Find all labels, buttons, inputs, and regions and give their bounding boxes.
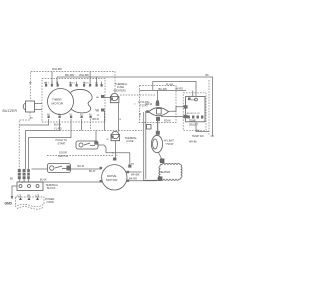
svg-text:2B 2C: 2B 2C [83,82,89,84]
svg-text:GND: GND [5,201,13,205]
svg-text:BK-W: BK-W [89,170,96,173]
svg-text:T'STAT: T'STAT [165,142,174,146]
svg-text:TEMP SW: TEMP SW [192,135,204,138]
svg-text:RD-W: RD-W [146,103,153,106]
svg-text:B-R: B-R [95,109,99,111]
svg-text:BUZZER: BUZZER [3,109,18,113]
svg-text:MOTOR: MOTOR [106,178,118,182]
svg-text:WH-BK: WH-BK [189,141,197,144]
svg-text:DOOR: DOOR [59,151,67,155]
svg-text:THERMAL: THERMAL [125,136,138,140]
svg-text:BK: BK [206,74,210,77]
svg-text:SELECT: SELECT [189,124,199,127]
svg-text:WH-BK: WH-BK [131,173,140,177]
svg-text:SWITCH: SWITCH [58,154,68,158]
svg-text:WH-BK: WH-BK [79,73,89,77]
svg-text:1B 1C: 1B 1C [69,82,75,84]
svg-text:CORD: CORD [47,201,55,204]
svg-text:4C: 4C [89,114,92,116]
svg-text:YL-RD: YL-RD [54,127,62,131]
svg-text:START: START [58,141,67,145]
svg-text:BU-W: BU-W [78,165,85,168]
svg-text:HI-LIMIT: HI-LIMIT [164,138,175,142]
svg-text:6C: 6C [70,114,73,116]
svg-text:BU-W: BU-W [40,179,47,182]
svg-text:MOTOR: MOTOR [52,102,64,106]
svg-text:BLOCK: BLOCK [47,187,56,190]
svg-text:TEMP: TEMP [189,119,196,122]
svg-text:PUSH TO: PUSH TO [56,138,67,142]
svg-text:BK-RD: BK-RD [65,73,75,77]
svg-text:BK-RD: BK-RD [159,87,167,91]
svg-text:FUSE: FUSE [127,139,134,143]
svg-text:BU-W: BU-W [54,123,61,127]
svg-text:6M: 6M [131,164,134,166]
svg-text:5C: 5C [80,114,83,116]
svg-text:BK T: BK T [44,82,49,84]
svg-text:HEATER: HEATER [160,170,171,174]
svg-text:RD BU YL W: RD BU YL W [187,113,201,115]
svg-text:WH-BK: WH-BK [52,67,62,71]
svg-text:BR-W: BR-W [93,118,100,121]
svg-text:BK: BK [10,178,14,181]
svg-text:BK-RD: BK-RD [176,88,184,91]
svg-text:WH: WH [191,99,195,101]
svg-text:BK-RD: BK-RD [129,177,137,181]
svg-text:PU-BK: PU-BK [166,83,174,86]
svg-text:BU: BU [138,113,141,117]
svg-text:RD-W: RD-W [164,120,171,123]
svg-text:(HEATER): (HEATER) [114,88,126,92]
